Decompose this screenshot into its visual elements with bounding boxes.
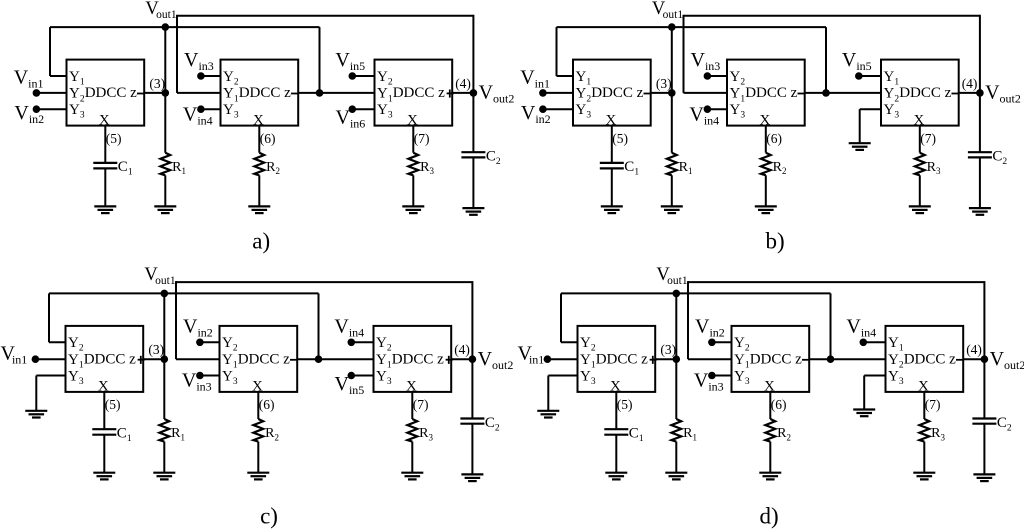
resistor R3 [919,419,945,442]
wire: C2 to ground [983,424,985,475]
wire: U3 Y3 to ground [860,109,881,143]
input terminal Vin4 [860,339,886,347]
node (4) junction / Vout2 [981,355,989,363]
wire: R1 to ground [164,175,166,206]
resistor R3 [915,153,941,176]
ground (C1) [605,473,627,480]
ground (R3) [401,473,423,480]
wire: U1 Y3 to ground [36,376,65,411]
input terminal Vin2 [196,339,219,347]
svg-text:DDCC z: DDCC z [85,85,137,101]
input terminal Vin6 [349,105,375,113]
svg-text:(6): (6) [260,131,276,146]
op-amp (DDCC block) U3 c [374,326,453,395]
resistor R1 [160,153,186,176]
ground (C1) [93,473,115,480]
input terminal Vin2 [708,339,731,347]
input terminal Vin1 [32,355,66,363]
op-amp (DDCC block) U1 c [66,326,145,395]
wire A: Vout2 feedback (node 4 to b-U2 input) [684,15,980,93]
ground (U1 Y3) [25,411,47,418]
ground (U1 Y3) [537,411,559,418]
wire: U2 z output to U3 input [297,358,373,360]
node Vout1 junction [668,23,676,31]
resistor R1 [671,419,697,442]
resistor R2 [254,153,280,176]
wire: U2 X pin down [258,126,260,153]
wire: C2 to ground [472,157,474,208]
wire: node 3 up to Vout1 and down to R1 [671,27,673,153]
node Vout1 junction [162,23,170,31]
svg-text:(5): (5) [106,131,122,146]
capacitor C1 [93,159,133,178]
wire: U1 Y3 to ground [548,376,577,411]
wire: R1 to ground [675,442,677,473]
svg-text:DDCC z: DDCC z [392,352,444,368]
wire: node 4 vertical (Vout2 column down to C2) [979,15,981,152]
wire: U2 z output to U3 input [298,92,374,94]
node: junction of Vout1 feedforward on U2-U3 wire [827,355,835,363]
wire: U3 z output to node 4 [451,358,472,360]
svg-text:(5): (5) [105,397,121,412]
wire: U2 X pin down [765,126,767,153]
capacitor C2 [968,149,1008,168]
wire: U3 X pin down [412,126,414,153]
svg-text:c): c) [260,504,278,529]
wire B: Vout1 horizontal + feedforward to U3 input [49,293,319,359]
wire: R3 to ground [923,442,925,473]
wire: U2 X pin down [769,392,771,419]
wire: R3 to ground [411,442,413,473]
input terminal Vin4 [197,105,220,113]
ground (C1) [94,206,116,213]
svg-text:DDCC z: DDCC z [239,85,291,101]
resistor R2 [253,419,279,442]
svg-text:a): a) [252,228,270,253]
op-amp (DDCC block) U3 a [375,60,454,129]
resistor R3 [408,153,434,176]
input terminal Vin4 [704,105,727,113]
input terminal Vin3 [197,72,220,80]
wire: C1 to ground [615,435,617,473]
op-amp (DDCC block) U1 d [578,326,657,395]
input terminal Vin3 [704,72,727,80]
op-amp (DDCC block) U2 c [220,326,298,395]
wire: R3 to ground [919,175,921,206]
ground (C2) [462,208,484,215]
wire: node 3 up to Vout1 and down to R1 [675,293,677,419]
wire: U2 X pin down [257,392,259,419]
svg-text:DDCC z: DDCC z [596,352,648,368]
wire: Vout1 feedback into b-U1 top pin [557,27,574,76]
svg-text:(3): (3) [656,76,672,91]
node: junction of Vout1 feedforward on U2-U3 wire [315,355,323,363]
wire A: Vout2 feedback (node 4 to a-U2 input) [177,15,473,93]
wire: U1 X pin to C1 [615,392,617,429]
ground (U3 Y3) [853,410,875,417]
wire: U1 z output to node 3 [655,358,676,360]
svg-text:DDCC z: DDCC z [238,352,290,368]
wire: C1 to ground [611,168,613,206]
wire: U3 Y3 to ground [864,376,885,410]
capacitor C2 [461,149,501,168]
svg-text:(7): (7) [920,131,936,146]
input terminal Vin2 [33,105,67,113]
ground (R1) [665,473,687,480]
wire: U2 z output to U3 input [805,92,881,94]
wire: Vout1 feedback into d-U1 top pin [561,293,578,342]
op-amp (DDCC block) U1 a [67,60,145,129]
capacitor C1 [600,159,640,178]
wire: Vout1 feedback into a-U1 top pin [50,27,67,76]
wire A: Vout2 feedback (node 4 to d-U2 input) [688,281,984,359]
node (4) junction / Vout2 [470,89,478,97]
svg-text:(5): (5) [617,397,633,412]
svg-text:(6): (6) [259,397,275,412]
input terminal Vin1 [544,355,578,363]
op-amp (DDCC block) U3 d [886,326,964,395]
wire: U3 X pin down [923,392,925,419]
wire: U3 z output to node 4 [963,358,984,360]
capacitor C1 [604,426,644,445]
wire: node 3 up to Vout1 and down to R1 [164,27,166,153]
input terminal Vin3 [708,372,731,380]
ground (R1) [661,206,683,213]
resistor R1 [667,153,693,176]
wire: node 4 vertical (Vout2 column down to C2) [471,281,473,418]
svg-text:DDCC z: DDCC z [745,85,797,101]
input terminal Vin4 [348,339,374,347]
wire: U1 z output to node 3 [651,92,672,94]
wire: R2 to ground [257,442,259,473]
wire B: Vout1 horizontal + feedforward to U3 input [557,27,827,93]
svg-text:(6): (6) [766,131,782,146]
wire B: Vout1 horizontal + feedforward to U3 input [50,27,320,93]
wire: U1 X pin to C1 [104,126,106,163]
svg-text:(4): (4) [966,342,982,357]
svg-text:(7): (7) [414,131,430,146]
op-amp (DDCC block) U3 b [881,60,959,129]
node (3) junction [162,89,170,97]
input terminal Vin3 [196,372,219,380]
ground (C2) [973,474,995,481]
wire: C2 to ground [979,157,981,208]
wire: U1 z output to node 3 [144,92,165,94]
node Vout1 junction [673,290,681,298]
wire: U1 z output to node 3 [143,358,164,360]
svg-text:(5): (5) [612,131,628,146]
capacitor C2 [972,415,1012,434]
input terminal Vin1 [539,89,573,97]
node: junction of Vout1 feedforward on U2-U3 wire [316,89,324,97]
op-amp (DDCC block) U2 a [221,60,299,129]
wire: U1 X pin to C1 [103,392,105,429]
svg-text:DDCC z: DDCC z [750,352,802,368]
ground (C2) [969,208,991,215]
ground (R2) [759,473,781,480]
svg-text:(4): (4) [455,76,471,91]
op-amp (DDCC block) U1 b [573,60,651,129]
input terminal Vin5 [348,372,374,380]
wire: node 4 vertical (Vout2 column down to C2) [983,281,985,418]
ground (R3) [909,206,931,213]
ground (R1) [153,473,175,480]
node (3) junction [161,355,169,363]
svg-text:(6): (6) [771,397,787,412]
resistor R1 [159,419,185,442]
op-amp (DDCC block) U2 b [727,60,805,129]
ground (C1) [601,206,623,213]
svg-text:b): b) [766,228,785,253]
resistor R2 [761,153,787,176]
wire: U2 z output to U3 input [809,358,885,360]
input terminal Vin5 [855,72,881,80]
ground (R3) [402,206,424,213]
node (4) junction / Vout2 [976,89,984,97]
input terminal Vin2 [539,105,573,113]
svg-text:DDCC z: DDCC z [591,85,643,101]
wire: R2 to ground [765,175,767,206]
wire: node 3 up to Vout1 and down to R1 [163,293,165,419]
wire: C1 to ground [104,168,106,206]
svg-text:(3): (3) [149,76,165,91]
input terminal Vin1 [33,89,67,97]
wire: C1 to ground [103,435,105,473]
node Vout1 junction [161,290,169,298]
ground (R3) [913,473,935,480]
wire: U3 X pin down [411,392,413,419]
wire A: Vout2 feedback (node 4 to c-U2 input) [176,281,472,359]
svg-text:(3): (3) [148,342,164,357]
svg-text:DDCC z: DDCC z [393,85,445,101]
node (3) junction [673,355,681,363]
ground (C2) [461,474,483,481]
wire: R1 to ground [671,175,673,206]
wire: R2 to ground [769,442,771,473]
wire: Vout1 feedback into c-U1 top pin [49,293,66,342]
ground (R1) [154,206,176,213]
ground (R2) [248,206,270,213]
node (4) junction / Vout2 [469,355,477,363]
svg-text:d): d) [760,504,779,529]
ground (R2) [755,206,777,213]
svg-text:(4): (4) [454,342,470,357]
ground (R2) [247,473,269,480]
wire: U3 z output to node 4 [959,92,980,94]
node: junction of Vout1 feedforward on U2-U3 wire [822,89,830,97]
wire: R3 to ground [412,175,414,206]
wire: U1 X pin to C1 [611,126,613,163]
svg-text:DDCC z: DDCC z [899,85,951,101]
svg-text:(4): (4) [962,76,978,91]
wire: node 4 vertical (Vout2 column down to C2) [472,15,474,152]
resistor R2 [765,419,791,442]
svg-text:DDCC z: DDCC z [904,352,956,368]
svg-text:DDCC z: DDCC z [84,352,136,368]
wire: U3 X pin down [919,126,921,153]
capacitor C2 [460,415,500,434]
wire B: Vout1 horizontal + feedforward to U3 input [561,293,831,359]
op-amp (DDCC block) U2 d [732,326,810,395]
resistor R3 [407,419,433,442]
wire: U3 z output to node 4 [452,92,473,94]
svg-text:(7): (7) [413,397,429,412]
input terminal Vin5 [349,72,375,80]
capacitor C1 [92,426,132,445]
svg-text:(3): (3) [660,342,676,357]
wire: R1 to ground [163,442,165,473]
node (3) junction [668,89,676,97]
wire: C2 to ground [471,424,473,475]
wire: R2 to ground [258,175,260,206]
ground (U3 Y3) [849,143,871,150]
svg-text:(7): (7) [925,397,941,412]
